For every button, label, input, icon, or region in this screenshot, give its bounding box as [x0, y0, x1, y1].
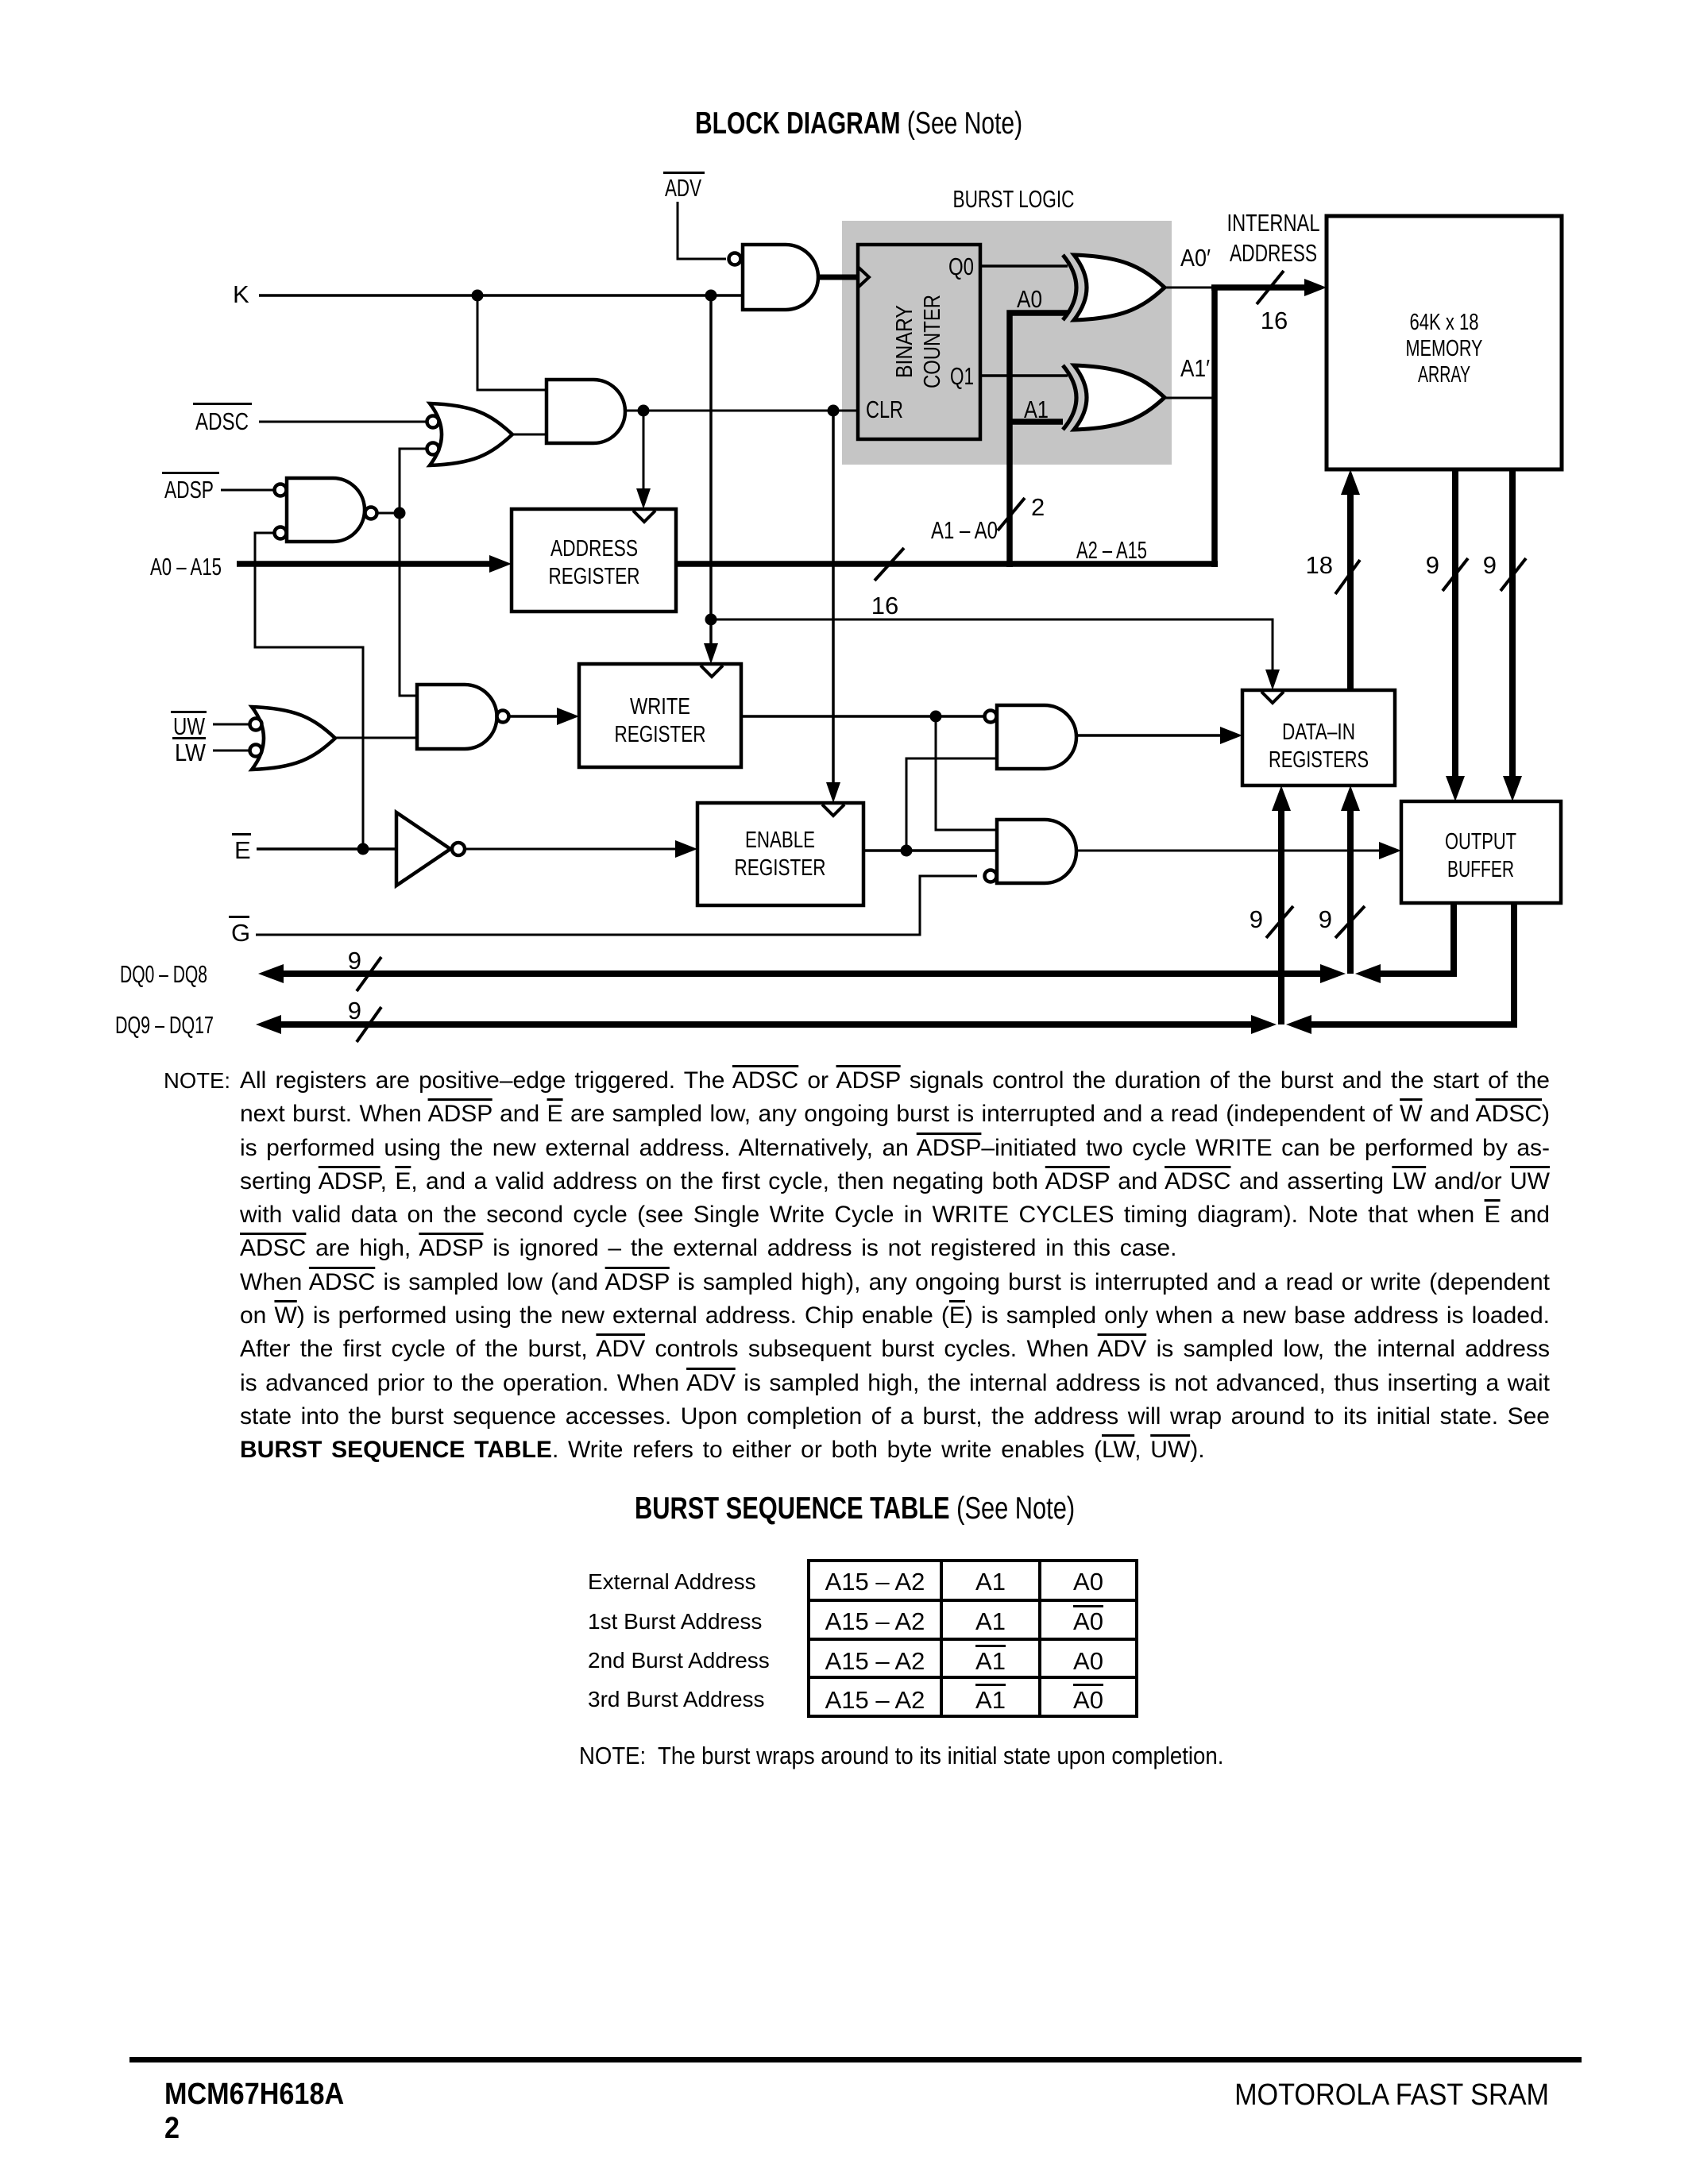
svg-text:ADDRESS: ADDRESS — [550, 536, 638, 561]
signal ADSC label — [193, 403, 252, 435]
node write branch — [930, 711, 942, 723]
wire enable register output — [863, 849, 997, 852]
svg-text:A2 – A15: A2 – A15 — [1076, 536, 1147, 564]
NAND U1 (ADV gating) — [729, 245, 819, 310]
svg-text:ENABLE: ENABLE — [745, 828, 815, 853]
svg-text:A1: A1 — [1024, 396, 1049, 423]
wire ADSP — [221, 489, 274, 492]
svg-text:16: 16 — [1261, 307, 1288, 334]
signal ADV label — [663, 172, 705, 202]
pin counter clock chevron — [858, 267, 869, 287]
wire G to G4 — [256, 876, 977, 935]
wire G4 output to output buffer — [1076, 850, 1381, 852]
slash 9 left — [1426, 551, 1468, 591]
node E junction — [357, 843, 369, 855]
wire V1 output to enable register — [465, 848, 680, 851]
wire A1 output to counter CLR — [625, 410, 858, 412]
wire load clock to address register — [643, 411, 645, 494]
bus 9 memory to output buffer left — [1452, 469, 1458, 785]
node K-clock junction — [705, 290, 717, 302]
svg-text:ADSP: ADSP — [164, 476, 214, 504]
note paragraph — [164, 1064, 1550, 1468]
svg-text:A0′: A0′ — [1180, 244, 1211, 272]
svg-text:LW: LW — [175, 739, 207, 766]
svg-text:A1 – A0: A1 – A0 — [931, 516, 998, 544]
wire E feedback to N1 lower input — [255, 533, 363, 849]
wire Q0 to XOR1 — [980, 264, 1068, 268]
NOR gate O2 (UW/LW) — [250, 707, 336, 770]
svg-text:Q0: Q0 — [948, 253, 974, 280]
signal E label — [232, 833, 251, 864]
svg-text:OUTPUT: OUTPUT — [1445, 829, 1516, 855]
binary counter box — [858, 245, 980, 439]
svg-text:BURST LOGIC: BURST LOGIC — [953, 185, 1075, 213]
wire E — [257, 847, 396, 851]
bus DQ low into data-in left — [1278, 801, 1284, 1024]
slash 9 DQ0-DQ8 — [348, 947, 381, 991]
table row labels — [588, 1569, 756, 1595]
node addr-clock junction — [638, 405, 650, 417]
slash 16 internal address — [1257, 271, 1288, 334]
signal UW label — [171, 711, 207, 740]
write register box — [579, 664, 741, 767]
svg-text:COUNTER: COUNTER — [920, 295, 945, 388]
wire A1 branch — [1010, 419, 1063, 425]
bus output buffer to DQ9-DQ17 — [1305, 903, 1514, 1024]
svg-text:9: 9 — [1250, 905, 1263, 933]
NAND gate N1 (ADSP) — [275, 478, 377, 542]
svg-text:2: 2 — [1031, 493, 1045, 521]
svg-text:G: G — [231, 919, 250, 947]
enable register box — [697, 803, 863, 905]
svg-text:MEMORY: MEMORY — [1406, 336, 1483, 361]
burst logic shaded region — [842, 185, 1172, 465]
AND gate G4 (output enable) — [985, 820, 1077, 883]
slash 9 data-in right — [1319, 905, 1365, 938]
svg-text:INTERNAL: INTERNAL — [1227, 209, 1320, 237]
wire A0' — [1165, 287, 1215, 289]
wire write branch down to G4 — [936, 716, 997, 830]
NOR gate O1 (ADSC/ADSP-load) — [427, 403, 513, 465]
svg-text:ADDRESS: ADDRESS — [1230, 239, 1317, 267]
svg-text:ADV: ADV — [665, 174, 701, 202]
wire K — [259, 294, 743, 297]
svg-text:BUFFER: BUFFER — [1447, 857, 1514, 882]
svg-text:DATA–IN: DATA–IN — [1282, 720, 1355, 745]
svg-text:REGISTERS: REGISTERS — [1269, 747, 1369, 773]
bus output buffer to DQ0-DQ8 — [1374, 903, 1454, 974]
svg-text:UW: UW — [173, 712, 206, 740]
svg-text:DQ0 – DQ8: DQ0 – DQ8 — [120, 960, 207, 988]
footer rule — [129, 2057, 1582, 2062]
burst sequence table title — [635, 1491, 1075, 1526]
svg-text:A1′: A1′ — [1180, 354, 1210, 382]
svg-text:A0: A0 — [1017, 285, 1042, 313]
slash 9 right — [1483, 551, 1526, 591]
bus A1-A0 vertical — [1010, 313, 1068, 567]
wire Q1 to XOR2 — [980, 374, 1068, 377]
bus DQ high into data-in right — [1347, 801, 1354, 974]
svg-text:WRITE: WRITE — [630, 694, 690, 720]
slash 9 data-in left — [1250, 905, 1293, 938]
wire UW — [213, 723, 249, 726]
svg-text:18: 18 — [1306, 551, 1333, 579]
net label INTERNAL ADDRESS — [1227, 209, 1320, 267]
bus A2-A15 from address register — [676, 561, 1218, 567]
svg-text:REGISTER: REGISTER — [735, 855, 826, 881]
wire load clock to enable register — [832, 411, 835, 794]
wire K clock vertical — [709, 295, 713, 655]
svg-text:REGISTER: REGISTER — [615, 722, 706, 747]
node K-AND junction — [472, 290, 484, 302]
wire O1 output to AND A1 — [512, 434, 547, 436]
bus internal address to memory — [1211, 284, 1309, 291]
bus DQ9-DQ17 — [274, 1021, 1257, 1028]
node N1 output junction — [394, 507, 406, 519]
wire G3 lower input from enable — [906, 758, 997, 851]
svg-text:ARRAY: ARRAY — [1418, 362, 1470, 388]
inverter V1 (E) — [396, 812, 465, 886]
XOR gate X2 (A1) — [1063, 365, 1165, 430]
wire N2 output to write register — [509, 715, 562, 718]
slash 16 on A2-A15 bus — [871, 548, 904, 619]
footer right — [1230, 2078, 1549, 2113]
svg-text:CLR: CLR — [866, 396, 903, 423]
slash 2 on A1-A0 — [998, 493, 1045, 531]
node enable branch — [901, 845, 913, 857]
NAND gate N2 (write) — [417, 685, 509, 749]
memory array box — [1327, 216, 1562, 469]
wire LW — [213, 750, 249, 752]
wire K down to AND A1 — [477, 295, 547, 390]
title BLOCK DIAGRAM — [695, 106, 1022, 141]
wire N1 out up to O1 lower input — [400, 449, 426, 696]
svg-text:K: K — [233, 280, 249, 308]
svg-text:9: 9 — [1319, 905, 1332, 933]
svg-text:ADSC: ADSC — [195, 407, 249, 435]
wire U1 output to counter clock — [818, 275, 856, 280]
XOR gate X1 (A0) — [1063, 255, 1165, 320]
signal LW label — [172, 737, 207, 766]
wire O2 output to N2 — [335, 737, 417, 739]
svg-text:BINARY: BINARY — [892, 305, 917, 378]
bus 18 data-in to memory — [1347, 485, 1354, 690]
node K clock branch — [705, 614, 717, 626]
output buffer box — [1401, 801, 1561, 903]
table cells — [809, 1568, 941, 1596]
wire write register output — [741, 715, 984, 718]
svg-text:9: 9 — [1483, 551, 1497, 579]
svg-text:A0 – A15: A0 – A15 — [150, 553, 222, 581]
wire A1' — [1165, 397, 1215, 399]
svg-text:Q1: Q1 — [950, 362, 974, 390]
slash 18 — [1306, 551, 1360, 594]
bus DQ0-DQ8 — [276, 970, 1327, 977]
slash 9 DQ9-DQ17 — [348, 997, 381, 1042]
AND gate A1 (load clock) — [547, 380, 625, 443]
wire N1 output — [377, 512, 400, 515]
footer left — [164, 2078, 344, 2146]
wire K clock branch to data-in — [711, 619, 1273, 681]
svg-text:REGISTER: REGISTER — [549, 564, 640, 589]
node enable-clock junction — [828, 405, 840, 417]
svg-text:16: 16 — [871, 592, 898, 619]
svg-text:DQ9 – DQ17: DQ9 – DQ17 — [115, 1011, 214, 1039]
data-in registers box — [1242, 690, 1395, 785]
svg-text:9: 9 — [348, 947, 361, 974]
signal G label — [229, 916, 250, 947]
bus internal address vertical — [1211, 287, 1218, 567]
bus 9 memory to output buffer right — [1509, 469, 1516, 785]
AND gate G3 (data-in load) — [985, 705, 1077, 769]
table note — [579, 1742, 1223, 1770]
wire ADV to NAND input — [678, 202, 726, 259]
wire ADSC — [259, 421, 426, 423]
svg-text:9: 9 — [348, 997, 361, 1024]
bus A0-A15 into address register — [237, 561, 494, 567]
svg-text:E: E — [234, 836, 251, 864]
wire G3 output to data-in registers — [1076, 734, 1225, 737]
address register box — [512, 509, 676, 612]
svg-text:64K x 18: 64K x 18 — [1410, 310, 1479, 335]
burst sequence table grid — [809, 1561, 1137, 1716]
signal ADSP label — [162, 472, 219, 504]
svg-text:9: 9 — [1426, 551, 1439, 579]
